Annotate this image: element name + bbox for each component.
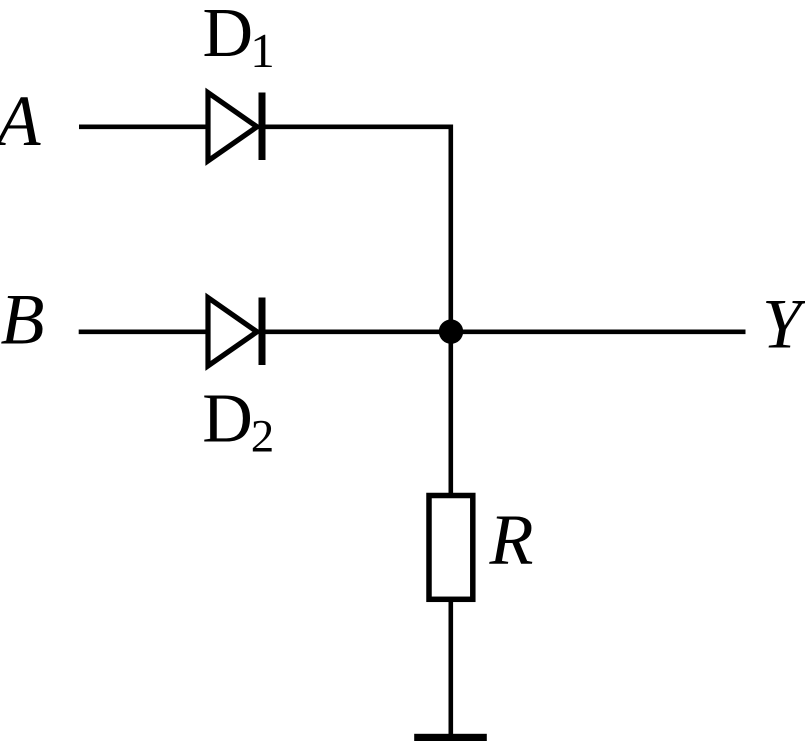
svg-text:1: 1: [250, 23, 274, 78]
node B label: [1, 280, 45, 360]
diode D1: [208, 93, 266, 161]
node A label: [0, 81, 42, 161]
ground: [414, 734, 487, 741]
wire resistor to ground: [448, 600, 453, 737]
svg-text:B: B: [1, 280, 45, 360]
wire junction to output Y: [451, 329, 746, 334]
wire D1 cathode to corner, down to junction: [266, 127, 451, 332]
junction node dot: [439, 319, 463, 343]
label D2: [202, 381, 274, 463]
label D1: [203, 0, 275, 78]
wire junction down to resistor: [448, 332, 453, 496]
svg-text:Y: Y: [762, 286, 805, 364]
svg-text:R: R: [489, 500, 534, 580]
wire D2 cathode to junction: [266, 329, 451, 334]
label R: [489, 500, 534, 580]
svg-text:2: 2: [251, 411, 274, 463]
diode D2: [208, 298, 266, 366]
svg-text:A: A: [0, 81, 42, 161]
svg-text:D: D: [202, 381, 253, 458]
wire A input to D1 anode: [79, 125, 210, 130]
resistor R: [429, 496, 473, 600]
wire B input to D2 anode: [79, 329, 210, 334]
svg-text:D: D: [203, 0, 254, 72]
node Y label: [762, 286, 805, 364]
